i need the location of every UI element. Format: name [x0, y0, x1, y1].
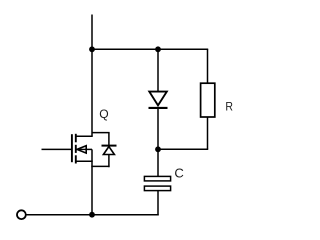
transistor Q channel segment top: [75, 134, 77, 143]
node junction top-left: [89, 46, 95, 52]
transistor Q source lead: [76, 160, 93, 162]
body diode triangle: [103, 147, 114, 155]
body diode loop top wire: [92, 132, 110, 134]
transistor Q body lead: [77, 148, 92, 150]
svg-text:C: C: [174, 166, 183, 181]
transistor Q body arrow: [77, 146, 86, 153]
transistor Q body arrow interior lead: [78, 148, 87, 150]
resistor R body: [201, 83, 215, 117]
wire resistor top lead: [207, 49, 209, 83]
capacitor C top plate: [144, 176, 170, 181]
wire top vertical (drain feed): [91, 15, 93, 137]
transistor Q channel segment bottom: [75, 155, 77, 163]
body diode loop right upper wire: [108, 133, 110, 146]
wire source vertical: [91, 149, 93, 214]
transistor Q channel segment middle: [75, 145, 77, 153]
diode D1 cathode bar: [149, 107, 168, 109]
wire bottom rail: [26, 214, 159, 216]
body diode cathode bar: [102, 145, 117, 147]
node junction mid: [155, 146, 161, 152]
wire mid rail: [158, 148, 208, 150]
wire capacitor top lead: [157, 149, 159, 176]
wire top rail: [91, 48, 208, 50]
wire diode anode: [157, 49, 159, 92]
transistor Q drain lead: [76, 135, 93, 137]
node junction top-mid: [155, 46, 161, 52]
capacitor C bottom plate: [144, 186, 170, 191]
body diode loop right lower wire: [108, 155, 110, 168]
wire diode cathode: [157, 108, 159, 149]
wire capacitor bottom lead: [157, 191, 159, 216]
transistor Q gate lead wire: [42, 148, 72, 150]
svg-text:R: R: [225, 100, 233, 114]
wire resistor bottom lead: [207, 117, 209, 149]
svg-text:Q: Q: [99, 107, 108, 121]
terminal input circle: [17, 210, 26, 219]
node junction bottom: [89, 212, 95, 218]
body diode loop bottom wire: [91, 165, 109, 167]
diode D1 triangle: [149, 92, 167, 106]
transistor Q gate bar: [71, 134, 73, 162]
